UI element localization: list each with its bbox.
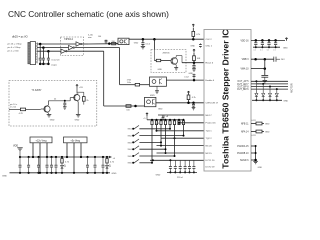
svg-text:VDD 16: VDD 16 (240, 40, 249, 42)
svg-text:pin 1 = 3 Dir: pin 1 = 3 Dir (8, 50, 20, 53)
svg-text:PGNDB 10: PGNDB 10 (237, 153, 249, 155)
svg-text:0.1R: 0.1R (252, 120, 257, 122)
svg-text:(sep): (sep) (52, 64, 57, 66)
svg-text:DCY2 19: DCY2 19 (206, 167, 216, 169)
svg-text:1/4w: 1/4w (127, 82, 132, 84)
svg-text:TQ1 1: TQ1 1 (206, 131, 213, 133)
svg-text:220 uf: 220 uf (177, 177, 183, 179)
svg-text:GND: GND (158, 108, 163, 110)
svg-text:0.1uf: 0.1uf (184, 77, 189, 79)
svg-text:CW/CCW 17: CW/CCW 17 (206, 103, 219, 105)
svg-text:NFA 14: NFA 14 (241, 130, 249, 133)
svg-text:0.1uf: 0.1uf (146, 43, 151, 45)
svg-text:pin 16 = 1 Step: pin 16 = 1 Step (8, 43, 23, 46)
svg-text:TQ2 2: TQ2 2 (206, 138, 213, 140)
svg-text:0.1: 0.1 (273, 50, 276, 52)
svg-text:Enable 4: Enable 4 (206, 80, 215, 82)
svg-text:0.1uf x3: 0.1uf x3 (52, 60, 61, 62)
svg-text:24V: 24V (281, 59, 285, 61)
svg-text:"X AXIS": "X AXIS" (32, 88, 42, 92)
svg-text:GND: GND (283, 101, 288, 103)
svg-text:GND: GND (190, 46, 195, 48)
svg-text:2N3906: 2N3906 (163, 53, 171, 55)
svg-text:GND: GND (156, 175, 161, 177)
svg-text:M1 20: M1 20 (206, 146, 213, 148)
svg-text:DCY1 20: DCY1 20 (206, 160, 216, 162)
svg-text:GND: GND (265, 123, 270, 125)
svg-text:74HC14: 74HC14 (64, 38, 73, 41)
svg-text:OSC 1: OSC 1 (206, 46, 213, 48)
svg-text:VMA 10: VMA 10 (240, 68, 249, 71)
svg-text:OUT_AM 7: OUT_AM 7 (237, 83, 249, 86)
svg-text:M0 17: M0 17 (206, 115, 213, 117)
svg-text:GND: GND (258, 167, 263, 169)
svg-text:pin 4 = 3 Stop: pin 4 = 3 Stop (8, 46, 22, 49)
svg-text:OUT_BM 6: OUT_BM 6 (237, 89, 249, 91)
svg-text:GND: GND (265, 131, 270, 133)
svg-text:OUT_AP 5: OUT_AP 5 (237, 80, 249, 83)
svg-text:MOTOR: MOTOR (290, 83, 294, 93)
svg-text:GND: GND (2, 175, 7, 177)
svg-text:0.1: 0.1 (260, 50, 263, 52)
svg-text:+5v Vreg: +5v Vreg (70, 139, 80, 142)
svg-text:SGND 6: SGND 6 (240, 160, 249, 162)
svg-text:PGNDA 15: PGNDA 15 (237, 145, 249, 148)
svg-text:GND: GND (75, 119, 80, 121)
svg-text:0.1: 0.1 (267, 50, 270, 52)
svg-text:NFB 11: NFB 11 (241, 123, 249, 125)
svg-text:+12v Vreg: +12v Vreg (36, 139, 48, 142)
svg-text:0.1: 0.1 (254, 50, 257, 52)
svg-text:CNC Controller schematic (one: CNC Controller schematic (one axis shown… (8, 9, 169, 19)
svg-text:+5V: +5V (79, 87, 83, 89)
svg-text:Reset 3: Reset 3 (206, 62, 214, 65)
svg-text:0.1R: 0.1R (252, 135, 257, 137)
svg-text:GND: GND (158, 69, 163, 71)
svg-text:GND: GND (283, 47, 288, 49)
svg-text:GND: GND (50, 119, 55, 121)
svg-text:GND: GND (155, 123, 160, 125)
svg-text:VMB 3: VMB 3 (242, 59, 250, 61)
svg-text:1 Limit: 1 Limit (10, 105, 16, 108)
svg-text:GND: GND (134, 43, 139, 45)
svg-text:10K: 10K (197, 58, 201, 60)
svg-text:Toshiba TB6560 Stepper Driver: Toshiba TB6560 Stepper Driver IC (221, 29, 231, 169)
svg-text:db25 = pc I/O: db25 = pc I/O (12, 34, 28, 38)
svg-text:GND: GND (112, 173, 117, 175)
svg-text:M2 15: M2 15 (206, 153, 213, 155)
svg-text:CLK 2: CLK 2 (206, 39, 213, 41)
svg-text:VDD: VDD (13, 145, 18, 148)
svg-text:Protect 16: Protect 16 (206, 122, 217, 125)
svg-text:4.7K: 4.7K (19, 113, 24, 115)
